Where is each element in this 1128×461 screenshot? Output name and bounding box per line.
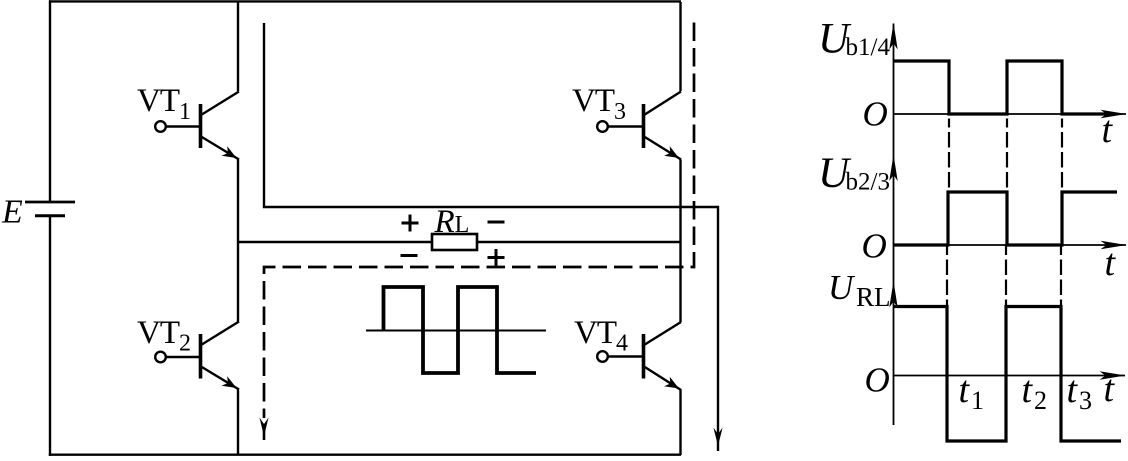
minus sign upper right of RL bbox=[488, 221, 505, 224]
wire top frame bbox=[49, 0, 681, 2]
svg-text:O: O bbox=[865, 361, 890, 400]
svg-text:VT3: VT3 bbox=[572, 83, 626, 125]
output waveform icon square wave bbox=[384, 287, 537, 373]
battery E short plate bbox=[35, 214, 65, 217]
arrow x-axis chart3 bbox=[1100, 371, 1126, 379]
dashed timing line t1 upper bbox=[948, 119, 950, 191]
svg-text:3: 3 bbox=[1079, 386, 1092, 415]
svg-text:b1/4: b1/4 bbox=[846, 34, 891, 61]
wire left frame lower bbox=[49, 216, 51, 456]
svg-text:U: U bbox=[828, 268, 856, 307]
wire bottom frame bbox=[49, 454, 681, 456]
dashed timing line t3 lower bbox=[1060, 246, 1062, 305]
svg-text:t: t bbox=[959, 369, 971, 411]
transistor Q VT1 bbox=[155, 92, 239, 160]
wire VT1/VT2 column upper bbox=[237, 2, 239, 91]
chart2 x-axis bbox=[894, 244, 1127, 246]
chart3 waveform URL bbox=[894, 307, 1121, 442]
svg-text:VT4: VT4 bbox=[574, 315, 628, 357]
arrow x-axis chart2 bbox=[1101, 241, 1127, 249]
wire right frame lower bbox=[679, 390, 681, 456]
transistor Q VT4 bbox=[597, 322, 681, 390]
minus sign lower left of RL bbox=[401, 254, 418, 257]
wire solid current path (VT1-VT4 conduction) bbox=[264, 23, 718, 451]
svg-text:O: O bbox=[862, 227, 887, 266]
transistor Q VT2 bbox=[155, 322, 239, 390]
svg-text:t: t bbox=[1067, 369, 1079, 411]
svg-text:E: E bbox=[1, 194, 23, 231]
chart3 x-axis bbox=[894, 375, 1126, 377]
svg-text:2: 2 bbox=[1034, 386, 1047, 415]
arrow y-axis chart1 bbox=[889, 23, 897, 50]
chart2 waveform Ub2/3 bbox=[894, 192, 1117, 245]
dashed timing line t2 lower bbox=[1005, 246, 1007, 305]
arrow y-axis chart3 bbox=[889, 281, 897, 308]
arrow x-axis chart1 bbox=[1101, 110, 1127, 118]
wire right frame middle bbox=[679, 160, 681, 323]
svg-text:RL: RL bbox=[856, 282, 891, 312]
resistor RL box bbox=[432, 234, 477, 250]
chart y-axis common vertical bbox=[893, 24, 895, 426]
svg-text:b2/3: b2/3 bbox=[846, 169, 890, 196]
svg-text:t: t bbox=[1104, 368, 1116, 410]
svg-text:VT1: VT1 bbox=[137, 83, 190, 125]
transistor Q VT3 bbox=[597, 92, 681, 160]
plus sign upper left of RL bbox=[402, 215, 419, 232]
svg-text:t: t bbox=[1105, 242, 1117, 284]
battery E long plate bbox=[25, 201, 75, 204]
chart1 waveform Ub1/4 bbox=[894, 61, 1113, 114]
chart1 x-axis bbox=[894, 113, 1127, 115]
svg-text:t: t bbox=[1102, 109, 1114, 151]
dashed timing line t2 upper bbox=[1006, 119, 1008, 191]
dashed timing line t3 upper bbox=[1061, 119, 1063, 191]
wire right frame upper bbox=[679, 2, 681, 91]
arrow y-axis chart2 bbox=[889, 155, 897, 182]
svg-text:O: O bbox=[863, 95, 888, 134]
dashed timing line t1 lower bbox=[946, 246, 948, 305]
wire dashed current path (VT2-VT3 conduction) bbox=[264, 23, 694, 419]
plus sign lower right of RL bbox=[488, 249, 505, 266]
output waveform icon baseline bbox=[366, 330, 546, 332]
wire left frame upper bbox=[49, 0, 51, 202]
arrow solid path down bbox=[713, 428, 722, 447]
wire RL right segment bbox=[477, 241, 680, 243]
wire RL left segment bbox=[237, 241, 432, 243]
wire VT1/VT2 column lower bbox=[237, 390, 239, 456]
svg-text:RL: RL bbox=[434, 204, 470, 240]
wire VT1/VT2 column middle bbox=[237, 160, 239, 322]
svg-text:t: t bbox=[1022, 369, 1034, 411]
arrow dashed path down bbox=[259, 418, 268, 437]
svg-text:VT2: VT2 bbox=[137, 315, 190, 357]
svg-text:1: 1 bbox=[971, 386, 984, 415]
